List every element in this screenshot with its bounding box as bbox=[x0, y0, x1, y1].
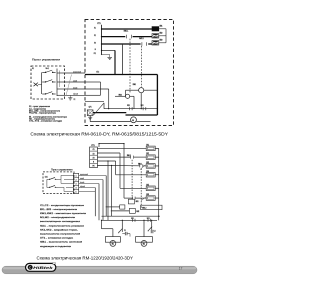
svg-text:индикации и подсветки: индикации и подсветки bbox=[40, 246, 72, 248]
svg-text:КМ1.1: КМ1.1 bbox=[127, 155, 131, 157]
svg-text:ЕК1: ЕК1 bbox=[160, 26, 163, 28]
svg-text:ЕК5: ЕК5 bbox=[146, 184, 149, 186]
svg-text:КМ1.2: КМ1.2 bbox=[142, 208, 146, 210]
svg-text:ЕК1: ЕК1 bbox=[146, 144, 149, 146]
svg-text:QF1: QF1 bbox=[89, 107, 92, 109]
svg-text:SK1: SK1 bbox=[131, 218, 134, 220]
svg-text:ЕК6: ЕК6 bbox=[146, 194, 149, 196]
svg-text:S1: S1 bbox=[32, 68, 34, 70]
svg-text:N: N bbox=[95, 49, 96, 51]
svg-text:РК1,РК2 - терморегуляторы: РК1,РК2 - терморегуляторы bbox=[29, 113, 57, 115]
svg-text:КМ1.1: КМ1.1 bbox=[124, 31, 129, 33]
svg-text:Л2: Л2 bbox=[94, 35, 96, 37]
svg-text:SB1 - выключатель световой: SB1 - выключатель световой bbox=[40, 241, 83, 244]
svg-text:КМ2.1: КМ2.1 bbox=[139, 38, 144, 40]
svg-text:XT1: XT1 bbox=[97, 23, 100, 25]
svg-text:SK1,SK2 - аварийные термо-: SK1,SK2 - аварийные термо- bbox=[40, 228, 78, 231]
svg-text:ЕК4: ЕК4 bbox=[146, 171, 149, 173]
svg-text:ЕК1...ЕК5 - электронагреватели: ЕК1...ЕК5 - электронагреватели bbox=[40, 209, 78, 211]
svg-text:PE: PE bbox=[74, 99, 76, 101]
svg-text:КМ2.1: КМ2.1 bbox=[138, 164, 142, 166]
svg-text:ХТ2: ХТ2 bbox=[96, 71, 99, 73]
svg-text:C1,C2 - конденсаторы пусковые: C1,C2 - конденсаторы пусковые bbox=[40, 205, 85, 207]
svg-text:PE: PE bbox=[94, 53, 96, 55]
svg-text:HiBtek: HiBtek bbox=[33, 266, 54, 270]
svg-text:ЕК3: ЕК3 bbox=[160, 39, 163, 41]
svg-text:КМ1: КМ1 bbox=[136, 201, 139, 203]
svg-text:КМ2: КМ2 bbox=[136, 211, 139, 213]
svg-text:КМ1,КМ2 - магнитные пускатели: КМ1,КМ2 - магнитные пускатели bbox=[40, 213, 87, 215]
svg-text:Л2: Л2 bbox=[93, 153, 95, 155]
svg-text:выключатели нагревателей: выключатели нагревателей bbox=[40, 233, 81, 236]
svg-text:ЕК2: ЕК2 bbox=[160, 32, 163, 34]
svg-text:С2: С2 bbox=[154, 231, 156, 233]
svg-text:Пульт управления: Пульт управления bbox=[51, 167, 73, 171]
svg-text:С1: С1 bbox=[124, 230, 126, 232]
svg-text:SK2: SK2 bbox=[147, 218, 150, 220]
svg-text:ЕК2: ЕК2 bbox=[146, 153, 149, 155]
svg-text:SA1 - переключатель режимов: SA1 - переключатель режимов bbox=[40, 224, 85, 227]
svg-text:КМ1: КМ1 bbox=[133, 84, 136, 86]
svg-text:Схема электрическая RM-0610-DY: Схема электрическая RM-0610-DY, RM-0615/… bbox=[30, 132, 168, 137]
svg-text:М2: М2 bbox=[143, 244, 145, 246]
svg-text:вентиляторов охлаждения: вентиляторов охлаждения bbox=[40, 221, 81, 223]
svg-text:Л3: Л3 bbox=[94, 42, 96, 44]
svg-text:Л1: Л1 bbox=[94, 27, 96, 29]
svg-text:ЕК3: ЕК3 bbox=[146, 162, 149, 164]
svg-text:М1: М1 bbox=[112, 244, 114, 246]
svg-text:Л3: Л3 bbox=[93, 157, 95, 159]
svg-text:М1,М2 - электродвигатели: М1,М2 - электродвигатели bbox=[40, 217, 76, 219]
svg-text:C: C bbox=[29, 266, 31, 269]
svg-text:SK2: SK2 bbox=[141, 105, 144, 107]
svg-text:Пульт управления: Пульт управления bbox=[32, 57, 61, 61]
svg-text:Схема электрическая RM-1220/19: Схема электрическая RM-1220/1920/2420-3D… bbox=[37, 255, 134, 260]
svg-text:ХТ1, ХТ2 - клеммные колодки: ХТ1, ХТ2 - клеммные колодки bbox=[29, 121, 63, 123]
svg-text:ХТ1 - клеммная колодка: ХТ1 - клеммная колодка bbox=[40, 238, 74, 240]
svg-text:Л1: Л1 bbox=[93, 149, 95, 151]
svg-text:SK1: SK1 bbox=[127, 105, 130, 107]
svg-text:РЕ: РЕ bbox=[92, 166, 94, 168]
svg-text:N: N bbox=[93, 162, 94, 164]
svg-text:17: 17 bbox=[179, 266, 183, 270]
